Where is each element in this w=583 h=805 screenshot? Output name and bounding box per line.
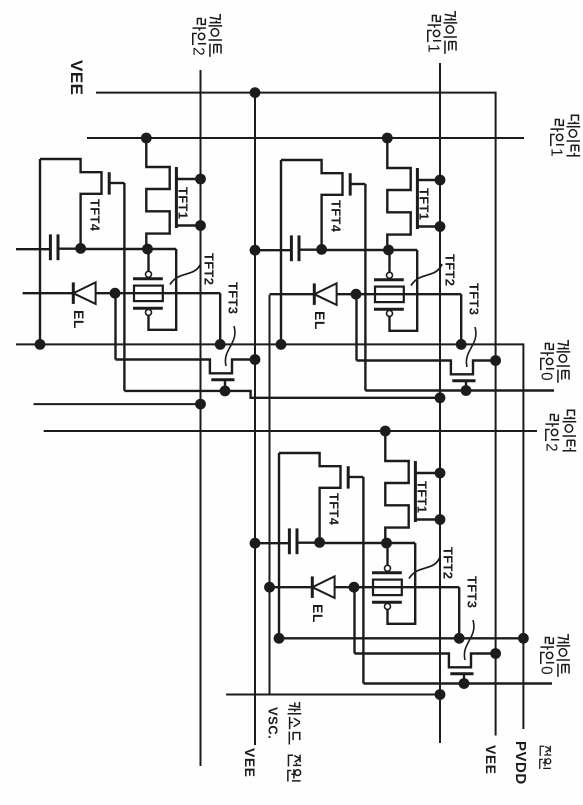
label VSC bbox=[266, 707, 281, 739]
svg-text:TFT1: TFT1 bbox=[176, 187, 191, 219]
label power (전원) bbox=[540, 746, 552, 769]
diode EL (cell B top-left) cathode bar bbox=[313, 283, 316, 305]
wire VSC cathode rail (horizontal) bbox=[269, 295, 271, 695]
wire capacitor top lead (cell A bottom-left) bbox=[58, 247, 81, 249]
transistor TFT3 (cell A bottom-left) channel bbox=[116, 360, 256, 374]
junction capacitor on VEE rail (cell C top-right) bbox=[250, 538, 261, 549]
wire data line 1 (vertical rail) bbox=[87, 137, 524, 139]
transistor TFT2 (cell C top-right) top gate contact bbox=[385, 565, 391, 571]
label gate line 1 (게이트 라인1) bbox=[425, 11, 458, 54]
junction node D1 (cell A bottom-left) on data line bbox=[141, 133, 152, 144]
label data line 2 (데이터 라인2) bbox=[543, 410, 577, 451]
transistor TFT2 (cell C top-right) gate electrode bars bbox=[372, 573, 402, 602]
junction node D2 (cell B top-left) bbox=[383, 245, 394, 256]
label EL (cell B top-left) bbox=[312, 311, 328, 330]
diode EL (cell C top-right) cathode bar bbox=[311, 576, 314, 598]
wire D3 to TFT3 (cell A bottom-left) bbox=[114, 293, 116, 359]
junction node D3 (cell A bottom-left) bbox=[110, 288, 121, 299]
wire capacitor top lead (cell B top-left) bbox=[299, 248, 322, 250]
wire TFT1 (cell C top-right) gate leads to gate line bbox=[415, 473, 440, 520]
junction cell rail on PVDD rail (cell B top-left) bbox=[276, 339, 287, 350]
junction TFT1 (cell A bottom-left) gate on gate line bbox=[195, 174, 206, 231]
wire capacitor bottom lead (cell A bottom-left) bbox=[16, 248, 50, 250]
wire TFT3 gate lead (cell B top-left) bbox=[465, 381, 467, 391]
label TFT2 (cell A bottom-left) bbox=[202, 253, 217, 285]
wire TFT1 (cell B top-left) gate leads to gate line bbox=[417, 180, 440, 227]
label VEE (right end of VEE top rail) bbox=[483, 745, 499, 775]
junction cell rail on PVDD rail (cell A bottom-left) bbox=[35, 339, 46, 350]
junction TFT3 gate on gate stub (cell A bottom-left) bbox=[220, 386, 231, 397]
wire VEE mid rail (horizontal) bbox=[254, 93, 256, 745]
junction node D3 (cell B top-left) bbox=[351, 289, 362, 300]
svg-text:TFT2: TFT2 bbox=[443, 254, 458, 286]
wire TFT4 (cell A bottom-left) gate lead bbox=[109, 182, 124, 184]
label TFT4 (cell C top-right) bbox=[327, 493, 342, 526]
svg-text:PVDD: PVDD bbox=[512, 741, 529, 785]
label gate line 2 (게이트 라인2) bbox=[190, 14, 223, 57]
wire capacitor bottom lead (cell B top-left) bbox=[255, 249, 291, 251]
svg-text:TFT1: TFT1 bbox=[417, 188, 432, 220]
svg-text:VEE: VEE bbox=[67, 60, 86, 96]
wire TFT2 top-gate lead (cell B top-left) bbox=[388, 250, 390, 272]
wire TFT4 gate row (cell C top-right) bbox=[362, 477, 364, 684]
label TFT4 (cell B top-left) bbox=[329, 200, 344, 233]
wire VEE rail (left vertical + top horizontal) bbox=[96, 93, 496, 736]
junction node D1 (cell C top-right) on data line bbox=[380, 426, 391, 437]
wire node D2 (cell A bottom-left) vertical bbox=[81, 248, 177, 250]
wire next-row gate stub (right, to gate line 1) bbox=[226, 694, 440, 696]
wire node D2 (cell C top-right) vertical bbox=[320, 542, 416, 544]
wire data line 2 (vertical rail) bbox=[44, 430, 537, 432]
junction TFT2 source on PVDD rail (cell B top-left) bbox=[456, 339, 467, 350]
label TFT2 (cell C top-right) bbox=[441, 547, 456, 579]
label TFT1 (cell A bottom-left) bbox=[176, 187, 191, 219]
diode EL (cell A bottom-left) cathode bar bbox=[72, 282, 75, 304]
junction VEE rail to VEE mid rail bbox=[250, 87, 261, 98]
label gate line 0 (게이트 라인0, right) bbox=[538, 634, 571, 677]
transistor TFT2 (cell A bottom-left) bottom gate contact bbox=[146, 309, 152, 315]
junction cell C PVDD branch on PVDD rail bbox=[518, 633, 529, 644]
transistor TFT1 (cell C top-right) gate bar bbox=[414, 461, 417, 522]
wire EL anode column (cell A bottom-left) bbox=[23, 292, 221, 294]
transistor TFT4 (cell B top-left) channel bbox=[281, 160, 343, 249]
svg-text:2: 2 bbox=[190, 47, 207, 56]
label VEE (left end of VEE rail) bbox=[67, 60, 86, 96]
label EL (cell C top-right) bbox=[310, 604, 326, 623]
transistor TFT3 (cell B top-left) gate bar bbox=[452, 379, 475, 382]
wire cell A previous-gate link to gate line 1 bbox=[124, 391, 440, 398]
transistor TFT1 (cell A bottom-left) channel bbox=[146, 138, 169, 249]
wire capacitor top lead (cell C top-right) bbox=[297, 542, 320, 544]
wire PVDD cell rail (cell A bottom-left) bbox=[39, 159, 41, 344]
transistor TFT1 (cell C top-right) channel bbox=[385, 431, 408, 543]
svg-text:VEE: VEE bbox=[242, 748, 258, 778]
wire TFT2 source to PVDD (cell B top-left) bbox=[460, 294, 462, 344]
svg-text:TFT4: TFT4 bbox=[329, 200, 344, 233]
svg-text:VSC.: VSC. bbox=[266, 707, 281, 739]
junction stub on gate line 1 bbox=[435, 689, 446, 700]
callout curve TFT3 (cell B top-left) bbox=[466, 327, 476, 367]
transistor TFT1 (cell B top-left) gate bar bbox=[416, 168, 419, 229]
svg-text:VEE: VEE bbox=[483, 745, 499, 775]
svg-text:TFT3: TFT3 bbox=[467, 283, 482, 315]
transistor TFT4 (cell C top-right) channel bbox=[279, 453, 341, 542]
junction stub on gate line 2 bbox=[195, 399, 206, 410]
transistor TFT2 (cell B top-left) gate electrode bars bbox=[374, 280, 404, 309]
junction node D2 (cell A bottom-left) bbox=[142, 244, 153, 255]
svg-text:0: 0 bbox=[538, 372, 555, 381]
transistor TFT2 (cell A bottom-left) top gate contact bbox=[146, 271, 152, 277]
svg-text:EL: EL bbox=[312, 311, 328, 330]
wire TFT3 gate lead (cell A bottom-left) bbox=[224, 380, 226, 391]
label cathode power (캐소드 전원) bbox=[288, 702, 302, 782]
wire TFT2 bottom-gate loop (cell A bottom-left) bbox=[149, 249, 177, 330]
label TFT3 (cell A bottom-left) bbox=[226, 282, 241, 314]
junction TFT1 (cell C top-right) gate on gate line bbox=[435, 468, 446, 525]
transistor TFT2 (cell A bottom-left) gate electrode bars bbox=[133, 279, 163, 308]
junction node D3 (cell C top-right) bbox=[349, 582, 360, 593]
junction TFT2 source on PVDD rail (cell C top-right) bbox=[454, 633, 465, 644]
label data line 1 (데이터 라인1) bbox=[548, 115, 581, 156]
wire capacitor bottom lead (cell C top-right) bbox=[255, 542, 289, 544]
junction node D2 (cell C top-right) bbox=[381, 538, 392, 549]
svg-text:EL: EL bbox=[310, 604, 326, 623]
junction node D4 (cell B top-left) bbox=[316, 244, 327, 255]
transistor TFT4 (cell B top-left) gate bar bbox=[349, 173, 352, 195]
transistor TFT3 (cell C top-right) gate bar bbox=[450, 672, 473, 675]
junction node D1 (cell B top-left) on data line bbox=[382, 133, 393, 144]
junction node D4 (cell C top-right) bbox=[314, 537, 325, 548]
transistor TFT2 (cell B top-left) top gate contact bbox=[387, 272, 393, 278]
junction TFT3 source on VEE rail (cell C top-right) bbox=[490, 648, 501, 659]
wire D3 to TFT3 (cell B top-left) bbox=[355, 294, 357, 360]
junction TFT3 gate on gate stub (cell C top-right) bbox=[459, 678, 470, 689]
label VEE (right end of VEE mid rail) bbox=[242, 748, 258, 778]
svg-text:2: 2 bbox=[543, 443, 560, 452]
label TFT3 (cell C top-right) bbox=[465, 576, 480, 608]
transistor TFT2 (cell B top-left) body box bbox=[375, 287, 404, 303]
label gate line 0 (게이트 라인0, left) bbox=[538, 340, 571, 383]
capacitor C (cell A bottom-left) plates bbox=[50, 234, 58, 260]
svg-text:EL: EL bbox=[71, 310, 87, 329]
wire EL anode column (cell C top-right) bbox=[270, 586, 460, 588]
wire node D2 (cell B top-left) vertical bbox=[322, 249, 418, 251]
wire PVDD cell rail (cell B top-left) bbox=[280, 160, 282, 344]
transistor TFT1 (cell A bottom-left) gate bar bbox=[175, 167, 178, 228]
wire TFT1 (cell A bottom-left) gate leads to gate line bbox=[176, 179, 200, 226]
transistor TFT3 (cell B top-left) channel bbox=[357, 361, 496, 375]
wire TFT4 (cell B top-left) gate lead bbox=[350, 183, 365, 185]
callout curve TFT2 (cell C top-right) bbox=[409, 557, 440, 579]
junction capacitor on VEE rail (cell B top-left) bbox=[250, 245, 261, 256]
label TFT3 (cell B top-left) bbox=[467, 283, 482, 315]
wire PVDD cell rail (cell C top-right) bbox=[278, 453, 280, 638]
svg-text:TFT3: TFT3 bbox=[465, 576, 480, 608]
junction cell A gate link on gate line 1 bbox=[435, 392, 446, 403]
wire TFT2 bottom-gate loop (cell C top-right) bbox=[388, 543, 416, 624]
junction TFT1 (cell B top-left) gate on gate line bbox=[435, 175, 446, 232]
wire gate line 1 (horizontal rail) bbox=[439, 63, 441, 743]
junction TFT3 source on VEE rail (cell B top-left) bbox=[490, 355, 501, 366]
wire gate line 2 (horizontal rail) bbox=[200, 70, 202, 766]
label TFT2 (cell B top-left) bbox=[443, 254, 458, 286]
wire gate line 0 stub (cell B top-left) bbox=[365, 389, 554, 391]
svg-text:TFT3: TFT3 bbox=[226, 282, 241, 314]
junction TFT3 source on VEE rail (cell A bottom-left) bbox=[250, 354, 261, 365]
junction EL cathode on VSC rail (cell C top-right) bbox=[264, 582, 275, 593]
svg-text:1: 1 bbox=[548, 148, 565, 157]
transistor TFT4 (cell A bottom-left) gate bar bbox=[108, 172, 111, 194]
callout curve TFT3 (cell C top-right) bbox=[464, 620, 474, 660]
wire gate line 0 stub (cell C top-right) bbox=[363, 682, 552, 684]
wire TFT4 (cell C top-right) gate lead bbox=[348, 476, 363, 478]
wire TFT3 gate lead (cell C top-right) bbox=[463, 674, 465, 684]
svg-text:1: 1 bbox=[425, 44, 442, 53]
junction TFT2 source on PVDD rail (cell A bottom-left) bbox=[215, 339, 226, 350]
svg-text:TFT4: TFT4 bbox=[327, 493, 342, 526]
wire TFT2 source to PVDD (cell C top-right) bbox=[458, 587, 460, 638]
label TFT1 (cell B top-left) bbox=[417, 188, 432, 220]
callout curve TFT2 (cell A bottom-left) bbox=[170, 263, 201, 285]
diode EL (cell A bottom-left) triangle bbox=[73, 282, 95, 304]
transistor TFT1 (cell B top-left) channel bbox=[387, 138, 410, 250]
wire TFT4 gate row (cell B top-left) bbox=[364, 184, 366, 391]
wire D3 to TFT3 (cell C top-right) bbox=[353, 587, 355, 653]
wire TFT2 top-gate lead (cell A bottom-left) bbox=[147, 249, 149, 271]
wire TFT2 bottom-gate loop (cell B top-left) bbox=[390, 250, 418, 331]
junction node D4 (cell A bottom-left) bbox=[75, 243, 86, 254]
junction TFT3 gate on gate stub (cell B top-left) bbox=[461, 385, 472, 396]
transistor TFT2 (cell C top-right) body box bbox=[373, 580, 402, 596]
label PVDD bbox=[512, 741, 529, 785]
wire TFT2 top-gate lead (cell C top-right) bbox=[386, 543, 388, 565]
transistor TFT3 (cell A bottom-left) gate bar bbox=[211, 378, 234, 381]
wire TFT2 source to PVDD (cell A bottom-left) bbox=[219, 293, 221, 344]
callout curve TFT2 (cell B top-left) bbox=[411, 264, 442, 286]
capacitor C (cell C top-right) plates bbox=[289, 528, 297, 554]
diode EL (cell B top-left) triangle bbox=[314, 283, 336, 305]
label TFT1 (cell C top-right) bbox=[415, 481, 430, 513]
svg-text:0: 0 bbox=[538, 666, 555, 675]
svg-text:TFT1: TFT1 bbox=[415, 481, 430, 513]
label EL (cell A bottom-left) bbox=[71, 310, 87, 329]
wire next-row gate stub (bottom, from gate line 2) bbox=[34, 403, 201, 405]
wire cell C PVDD branch vertical bbox=[277, 637, 523, 639]
junction cell rail on PVDD rail (cell C top-right) bbox=[274, 633, 285, 644]
label TFT4 (cell A bottom-left) bbox=[88, 199, 103, 232]
wire EL anode column (cell B top-left) bbox=[270, 293, 462, 295]
transistor TFT2 (cell C top-right) bottom gate contact bbox=[385, 603, 391, 609]
transistor TFT2 (cell B top-left) bottom gate contact bbox=[387, 310, 393, 316]
svg-text:TFT2: TFT2 bbox=[441, 547, 456, 579]
svg-text:TFT4: TFT4 bbox=[88, 199, 103, 232]
transistor TFT4 (cell C top-right) gate bar bbox=[347, 466, 350, 488]
transistor TFT2 (cell A bottom-left) body box bbox=[134, 286, 163, 302]
wire TFT4 gate row (cell A bottom-left) bbox=[123, 183, 125, 391]
diode EL (cell C top-right) triangle bbox=[312, 576, 334, 598]
svg-text:TFT2: TFT2 bbox=[202, 253, 217, 285]
transistor TFT4 (cell A bottom-left) channel bbox=[40, 159, 102, 248]
transistor TFT3 (cell C top-right) channel bbox=[355, 654, 496, 668]
wire PVDD rail (vertical + top horizontal) bbox=[16, 344, 523, 729]
callout curve TFT3 (cell A bottom-left) bbox=[225, 326, 235, 366]
capacitor C (cell B top-left) plates bbox=[291, 235, 299, 261]
